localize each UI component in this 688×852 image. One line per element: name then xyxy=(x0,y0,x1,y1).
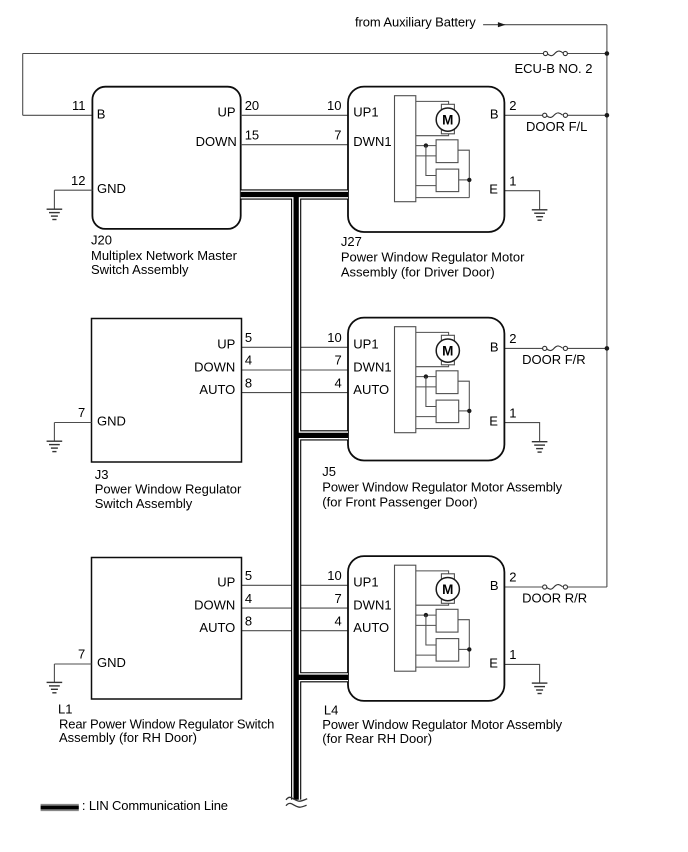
wire connector to relay 2 lower (L4) xyxy=(416,654,436,656)
wire junction down to relay 2 (J5) xyxy=(426,377,436,407)
wire ground stub J3 xyxy=(53,423,55,442)
svg-text:J20: J20 xyxy=(91,232,112,247)
junction dot (J5) xyxy=(424,374,428,378)
LIN communication line casing outer xyxy=(241,189,348,199)
relay 1 (J27) xyxy=(436,140,458,163)
ground J20 xyxy=(47,209,63,219)
svg-text:DOWN: DOWN xyxy=(194,598,235,613)
wire UP row L1 to L4 xyxy=(242,584,349,586)
svg-text:DWN1: DWN1 xyxy=(353,134,391,149)
wire connector to relay 1 lower (J5) xyxy=(416,386,436,388)
svg-text:M: M xyxy=(442,344,453,359)
svg-text:AUTO: AUTO xyxy=(199,382,235,397)
wire connector to motor bottom (L4) xyxy=(416,603,449,605)
fuse DOOR R/R xyxy=(543,585,568,590)
svg-text:DOOR F/L: DOOR F/L xyxy=(526,119,587,134)
wire DOWN row J3 to J5 xyxy=(242,369,349,371)
wire DOWN row L1 to L4 xyxy=(242,607,349,609)
svg-text:E: E xyxy=(489,414,498,429)
svg-text:4: 4 xyxy=(334,375,341,390)
wire B row J5 to trunk xyxy=(504,347,542,349)
motor box J27 xyxy=(348,87,504,232)
node junction trunk/ECU-B xyxy=(605,51,610,56)
wire connector to relay 1 upper (L4) xyxy=(416,614,436,616)
wire UP row J20 to J27 xyxy=(241,114,348,116)
svg-text:GND: GND xyxy=(97,181,126,196)
junction dot (L4) xyxy=(424,613,428,617)
svg-text:UP1: UP1 xyxy=(353,337,378,352)
node junction trunk/DOOR F/L xyxy=(605,113,610,118)
ground J27 E xyxy=(532,210,548,220)
svg-text:8: 8 xyxy=(245,613,252,628)
wire connector to relay 1 lower (L4) xyxy=(416,624,436,626)
motor brush top (L4) xyxy=(441,574,454,579)
wire break squiggle upper xyxy=(286,797,307,801)
LIN line J20 to J27 horizontal xyxy=(241,192,348,197)
svg-text:L4: L4 xyxy=(324,703,338,718)
wire break squiggle lower xyxy=(286,803,307,807)
motor brush top (J5) xyxy=(441,335,454,340)
wire connector to relay 2 lower (J5) xyxy=(416,416,436,418)
wire right trunk vertical xyxy=(606,25,608,587)
svg-text:GND: GND xyxy=(97,655,126,670)
svg-text:Power Window Regulator Motor A: Power Window Regulator Motor Assembly xyxy=(322,717,562,732)
motor M (J27) xyxy=(436,108,459,131)
wire ECU-B row left span xyxy=(23,53,544,55)
svg-text:10: 10 xyxy=(327,98,341,113)
wire connector to relay 2 lower (J27) xyxy=(416,185,436,187)
svg-text:5: 5 xyxy=(245,330,252,345)
motor M (L4) xyxy=(436,578,459,601)
svg-text:1: 1 xyxy=(509,647,516,662)
wire battery feed with arrow xyxy=(483,24,607,26)
svg-text:2: 2 xyxy=(509,98,516,113)
svg-text:B: B xyxy=(97,106,106,121)
svg-text:DWN1: DWN1 xyxy=(353,359,391,374)
wire connector to motor top (J5) xyxy=(416,332,449,336)
relay 1 (J5) xyxy=(436,371,458,394)
svg-text:B: B xyxy=(490,578,499,593)
svg-text:UP: UP xyxy=(217,575,235,590)
svg-text:from Auxiliary Battery: from Auxiliary Battery xyxy=(355,14,476,29)
fuse ECU-B NO. 2 xyxy=(543,51,567,56)
wire connector to relay 1 upper (J27) xyxy=(416,145,436,147)
svg-text:E: E xyxy=(489,655,498,670)
svg-text:DOWN: DOWN xyxy=(194,359,235,374)
wire relay 1 output (J5) xyxy=(458,381,469,428)
svg-text:B: B xyxy=(490,339,499,354)
svg-text:DOWN: DOWN xyxy=(196,134,237,149)
svg-text:10: 10 xyxy=(327,568,341,583)
connector block inside L4 xyxy=(395,565,416,671)
connector block inside J5 xyxy=(395,327,416,433)
wire pin 11 B of J20 xyxy=(23,114,93,116)
svg-text:7: 7 xyxy=(334,127,341,142)
wire AUTO row J3 to J5 xyxy=(242,392,349,394)
wire ground stub L1 xyxy=(53,664,55,682)
junction dot relay output (L4) xyxy=(467,647,471,651)
junction dot (J27) xyxy=(424,143,428,147)
svg-text:Multiplex Network Master: Multiplex Network Master xyxy=(91,248,238,263)
svg-text:DOOR R/R: DOOR R/R xyxy=(522,591,587,606)
LIN communication line casing gap xyxy=(241,191,348,199)
svg-text:2: 2 xyxy=(509,331,516,346)
svg-text:2: 2 xyxy=(509,570,516,585)
svg-text:7: 7 xyxy=(334,591,341,606)
connector block inside J27 xyxy=(395,96,416,202)
svg-text:AUTO: AUTO xyxy=(353,620,389,635)
svg-text:DWN1: DWN1 xyxy=(353,598,391,613)
switch box J3 xyxy=(92,319,242,463)
switch box L1 xyxy=(92,558,242,700)
svg-text:M: M xyxy=(442,582,453,597)
wire relay 1 output (J27) xyxy=(458,150,469,197)
junction dot relay output (J5) xyxy=(467,409,471,413)
wire connector to motor top (J27) xyxy=(416,101,449,105)
svg-text:12: 12 xyxy=(71,173,85,188)
wire internal bottom return (L4) xyxy=(416,666,470,668)
wire GND pin 12 of J20 xyxy=(54,189,92,191)
svg-text:Power Window Regulator: Power Window Regulator xyxy=(95,482,242,497)
wire connector to relay 1 lower (J27) xyxy=(416,155,436,157)
relay 1 (L4) xyxy=(436,609,458,632)
svg-text:Assembly (for RH Door): Assembly (for RH Door) xyxy=(59,730,197,745)
svg-text:7: 7 xyxy=(78,647,85,662)
motor box J5 xyxy=(348,318,504,461)
svg-text:Switch Assembly: Switch Assembly xyxy=(91,262,189,277)
node junction trunk/DOOR F/R xyxy=(605,346,610,351)
relay 2 (L4) xyxy=(436,639,459,662)
junction dot relay output (J27) xyxy=(467,178,471,182)
motor brush top (J27) xyxy=(441,104,454,109)
wire connector to motor bottom (J27) xyxy=(416,133,449,135)
svg-text:J27: J27 xyxy=(341,234,362,249)
wire relay 2 output (J5) xyxy=(459,410,470,412)
ground J5 E xyxy=(532,442,548,452)
LIN line main vertical trunk xyxy=(293,195,298,800)
svg-text:E: E xyxy=(489,182,498,197)
svg-text:UP: UP xyxy=(218,105,236,120)
svg-text:4: 4 xyxy=(334,613,341,628)
svg-text:UP: UP xyxy=(217,337,235,352)
svg-text:11: 11 xyxy=(72,98,86,113)
wire ECU-B row right span xyxy=(567,53,607,55)
svg-text:Switch Assembly: Switch Assembly xyxy=(95,496,193,511)
ground L1 xyxy=(47,682,63,692)
motor box L4 xyxy=(348,556,504,701)
svg-text:4: 4 xyxy=(245,591,252,606)
ground L4 E xyxy=(532,683,548,693)
svg-text:4: 4 xyxy=(245,353,252,368)
svg-text:GND: GND xyxy=(97,414,126,429)
svg-text:15: 15 xyxy=(245,127,259,142)
svg-text:L1: L1 xyxy=(58,702,72,717)
wire internal bottom return (J27) xyxy=(416,197,470,199)
legend LIN line sample xyxy=(41,803,79,805)
svg-text:J3: J3 xyxy=(95,467,109,482)
svg-text:UP1: UP1 xyxy=(353,105,378,120)
svg-text:B: B xyxy=(490,106,499,121)
wire internal bottom return (J5) xyxy=(416,428,470,430)
motor brush bottom (L4) xyxy=(441,598,454,603)
svg-text:M: M xyxy=(442,113,453,128)
svg-text:Power Window Regulator Motor A: Power Window Regulator Motor Assembly xyxy=(322,480,562,495)
relay 2 (J5) xyxy=(436,400,459,423)
wire left drop to pin 11 xyxy=(22,54,24,116)
svg-text:1: 1 xyxy=(509,405,516,420)
wire relay 1 output (L4) xyxy=(458,620,469,667)
motor brush bottom (J5) xyxy=(441,360,454,365)
fuse DOOR F/L xyxy=(543,113,568,118)
svg-text:J5: J5 xyxy=(322,464,336,479)
svg-text:7: 7 xyxy=(334,353,341,368)
wire E row J5 xyxy=(504,423,539,442)
svg-text:5: 5 xyxy=(245,568,252,583)
svg-text:: LIN Communication Line: : LIN Communication Line xyxy=(82,798,228,813)
wire B row L4 to trunk xyxy=(504,586,542,588)
wire junction down to relay 2 (L4) xyxy=(426,615,436,645)
wire relay 2 output (J27) xyxy=(459,179,470,181)
svg-text:8: 8 xyxy=(245,375,252,390)
wire DOWN row J20 to J27 xyxy=(241,144,348,146)
wire GND pin 7 of L1 xyxy=(54,663,91,665)
svg-text:ECU-B NO. 2: ECU-B NO. 2 xyxy=(515,61,593,76)
LIN line branch to J5 xyxy=(296,433,348,438)
svg-text:Assembly (for Driver Door): Assembly (for Driver Door) xyxy=(341,264,495,279)
wire connector to relay 1 upper (J5) xyxy=(416,376,436,378)
wire junction down to relay 2 (J27) xyxy=(426,146,436,176)
LIN line branch to L4 xyxy=(296,675,348,680)
svg-text:20: 20 xyxy=(245,98,259,113)
svg-text:(for Front Passenger Door): (for Front Passenger Door) xyxy=(322,494,477,509)
wire UP row J3 to J5 xyxy=(242,346,349,348)
svg-text:10: 10 xyxy=(327,330,341,345)
svg-text:(for Rear RH Door): (for Rear RH Door) xyxy=(322,731,432,746)
motor M (J5) xyxy=(436,339,459,362)
svg-text:AUTO: AUTO xyxy=(353,382,389,397)
svg-text:7: 7 xyxy=(78,405,85,420)
svg-text:Power Window Regulator Motor: Power Window Regulator Motor xyxy=(341,250,525,265)
svg-text:UP1: UP1 xyxy=(353,575,378,590)
wire E row L4 xyxy=(504,664,539,683)
switch box J20 xyxy=(92,87,240,229)
fuse DOOR F/R xyxy=(543,346,568,351)
svg-text:DOOR F/R: DOOR F/R xyxy=(522,352,586,367)
wire GND pin 7 of J3 xyxy=(54,422,91,424)
ground J3 xyxy=(47,441,63,451)
relay 2 (J27) xyxy=(436,169,459,192)
wire AUTO row L1 to L4 xyxy=(242,630,349,632)
svg-text:1: 1 xyxy=(509,173,516,188)
wire connector to motor top (L4) xyxy=(416,571,449,575)
wire E row J27 xyxy=(504,191,539,210)
svg-text:AUTO: AUTO xyxy=(199,620,235,635)
wire B row J27 to trunk xyxy=(504,114,542,116)
motor brush bottom (J27) xyxy=(441,129,454,134)
wire connector to motor bottom (J5) xyxy=(416,364,449,366)
wire relay 2 output (L4) xyxy=(459,648,470,650)
wire ground stub J20 xyxy=(53,190,55,209)
